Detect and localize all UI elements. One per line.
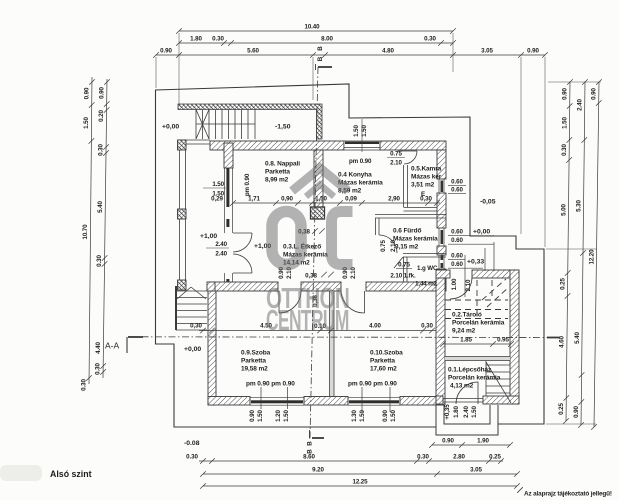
svg-text:+1,00: +1,00 (200, 233, 217, 240)
right wing top wall (436, 270, 450, 278)
door szoba 0.10 (341, 291, 365, 313)
svg-text:0.60: 0.60 (451, 229, 463, 236)
svg-text:0.90: 0.90 (98, 87, 105, 99)
svg-text:Parketta: Parketta (370, 358, 395, 365)
svg-text:0,09: 0,09 (345, 196, 357, 203)
svg-text:Porcelán kerámia: Porcelán kerámia (452, 320, 505, 327)
svg-text:1.50: 1.50 (361, 125, 368, 137)
right wing middle divider (445, 357, 510, 361)
exterior stair lower-left (176, 286, 207, 330)
terrace parapet top band (178, 104, 322, 139)
svg-text:+0,00: +0,00 (162, 124, 179, 131)
main interior wall (south of dining) segments (208, 282, 278, 291)
svg-text:0.2.Tároló: 0.2.Tároló (452, 312, 482, 319)
svg-text:0.30: 0.30 (96, 255, 103, 267)
wall stub nappali/konyha (314, 150, 323, 207)
bottom dimension row 12.25 (200, 483, 520, 489)
svg-text:+0,00: +0,00 (473, 229, 490, 236)
svg-text:-0,05: -0,05 (480, 199, 496, 206)
right dimension column A (563, 79, 573, 424)
svg-text:1,50: 1,50 (315, 196, 327, 203)
right wall window dims 0.60 with leaders (448, 185, 466, 187)
svg-text:5.40: 5.40 (97, 201, 104, 213)
svg-text:pm 0.90 pm 0.90: pm 0.90 pm 0.90 (246, 381, 295, 388)
svg-text:2.40: 2.40 (577, 99, 584, 111)
svg-text:Alsó szint: Alsó szint (50, 469, 92, 479)
svg-text:0.20: 0.20 (98, 110, 105, 122)
svg-text:9.20: 9.20 (312, 467, 324, 474)
right wing entry door arc (450, 277, 472, 299)
section line A-A horizontal (127, 337, 560, 353)
furdo door arc (379, 235, 397, 253)
svg-text:A-A: A-A (105, 341, 120, 351)
main top wall (right part) (380, 141, 446, 150)
svg-text:pm 0.90 pm 0.90: pm 0.90 pm 0.90 (348, 381, 397, 388)
svg-text:1.50: 1.50 (212, 181, 224, 188)
svg-text:8.00: 8.00 (321, 36, 333, 43)
svg-text:0.60: 0.60 (451, 261, 463, 268)
svg-text:0.90: 0.90 (591, 88, 598, 100)
svg-text:3,15 m2: 3,15 m2 (395, 244, 419, 251)
svg-text:1.80: 1.80 (190, 36, 202, 43)
top extension lines (156, 33, 545, 247)
svg-text:0.90: 0.90 (160, 48, 172, 55)
right extension lines (546, 82, 601, 424)
svg-text:+0,33: +0,33 (467, 259, 484, 266)
svg-text:1,44 m2: 1,44 m2 (415, 281, 438, 288)
svg-text:1.50: 1.50 (283, 410, 290, 422)
wc top wall (403, 254, 446, 258)
svg-text:B: B (307, 441, 314, 446)
svg-text:1.50: 1.50 (471, 406, 478, 418)
svg-text:2.10: 2.10 (390, 240, 397, 252)
svg-text:0.9.Szoba: 0.9.Szoba (241, 350, 271, 357)
svg-text:B: B (317, 46, 324, 51)
extension line from 0.60 leaders (493, 242, 495, 271)
svg-text:0.60: 0.60 (451, 237, 463, 244)
svg-text:0.60: 0.60 (451, 253, 463, 260)
svg-text:10.40: 10.40 (305, 24, 321, 31)
svg-text:1.20: 1.20 (275, 410, 282, 422)
svg-text:12.25: 12.25 (353, 479, 369, 486)
svg-text:0.60: 0.60 (451, 187, 463, 194)
window szoba 0.10 (348, 387, 400, 412)
svg-text:12.20: 12.20 (588, 249, 595, 265)
svg-text:0,30: 0,30 (190, 323, 202, 330)
svg-text:Mázas ker: Mázas ker (411, 174, 442, 181)
svg-text:0.6 Fürdő: 0.6 Fürdő (393, 228, 421, 235)
left dimension column inner (100, 79, 109, 378)
svg-text:2.40: 2.40 (215, 251, 227, 258)
svg-text:0.75: 0.75 (390, 151, 402, 158)
svg-text:2.80: 2.80 (453, 454, 465, 461)
svg-text:0.90: 0.90 (442, 438, 454, 445)
bottom dimension row 0.90/1.90 (429, 442, 513, 448)
svg-text:10.70: 10.70 (82, 224, 89, 240)
svg-text:1.30: 1.30 (351, 410, 358, 422)
wc left wall (404, 257, 408, 282)
svg-text:1.50: 1.50 (83, 117, 90, 129)
window in top wall (kitchen) (344, 141, 380, 150)
svg-text:Parketta: Parketta (241, 358, 266, 365)
outer site/terrace boundary upper (156, 84, 545, 424)
kamra bottom wall (404, 208, 438, 212)
svg-text:2.40: 2.40 (463, 406, 470, 418)
window szoba 0.9 (250, 387, 304, 409)
svg-text:0.90: 0.90 (249, 410, 256, 422)
svg-text:0.5.Kamra: 0.5.Kamra (411, 166, 442, 173)
konyha/furdo divider wall (375, 215, 446, 219)
svg-text:4.80: 4.80 (382, 48, 394, 55)
svg-text:0.60: 0.60 (451, 179, 463, 186)
right dimension column C (591, 79, 602, 430)
right wing right wall (510, 270, 519, 404)
faint scanner smudge bottom-left (0, 465, 42, 481)
wing door leaf / extension line (464, 255, 466, 297)
svg-text:0.90: 0.90 (573, 406, 580, 418)
top dimension row 0.90/5.60/4.80/3.05/0.90 (153, 52, 548, 58)
exterior landing bottom right (436, 405, 498, 435)
svg-text:B: B (307, 449, 314, 454)
svg-text:0.8. Nappali: 0.8. Nappali (265, 161, 300, 168)
svg-text:0.30: 0.30 (95, 363, 102, 375)
svg-text:0.30: 0.30 (424, 36, 436, 43)
svg-text:3.05: 3.05 (470, 467, 482, 474)
column at end of stub (311, 207, 325, 219)
svg-text:Az alaprajz tájékoztató jelleg: Az alaprajz tájékoztató jellegű! (524, 491, 612, 498)
svg-text:5.30: 5.30 (575, 200, 582, 212)
svg-text:0.30: 0.30 (98, 144, 105, 156)
kamra left wall (404, 165, 408, 207)
svg-text:0.30: 0.30 (561, 144, 568, 156)
garage right wall window (dark bar) (225, 168, 233, 207)
double door garage->dining (233, 233, 252, 273)
extension line at +0,33 (484, 248, 486, 271)
svg-text:pm 0.90: pm 0.90 (349, 158, 372, 165)
wall between stair and szoba 0.9 (207, 282, 215, 291)
svg-text:1.50: 1.50 (353, 125, 360, 137)
svg-text:2.40: 2.40 (215, 241, 227, 248)
garage right wall mid segment (225, 207, 233, 233)
door szoba 0.9 (279, 291, 301, 313)
svg-text:0.30: 0.30 (186, 454, 198, 461)
wc door leaf (394, 257, 403, 268)
right outer wall: segments with windows (437, 150, 446, 179)
svg-text:0.75: 0.75 (398, 262, 410, 269)
right wing door bottom arc (456, 382, 478, 404)
left dimension column outer (86, 77, 95, 384)
svg-text:1.50: 1.50 (561, 117, 568, 129)
interior dimension line etkezo/szoba (199, 328, 436, 334)
svg-text:0.25: 0.25 (559, 278, 566, 290)
watermark Otthon Centrum logo (266, 168, 353, 337)
kamra door arc (398, 151, 417, 164)
svg-text:0.90: 0.90 (527, 48, 539, 55)
svg-text:5.40: 5.40 (574, 332, 581, 344)
konyha window vertical dim line (361, 119, 363, 152)
svg-text:0,38: 0,38 (305, 273, 317, 280)
bottom dimension row 9.20/3.05 (200, 471, 520, 477)
svg-text:pm 0.90: pm 0.90 (244, 173, 251, 196)
lower-left outer wall (208, 291, 216, 405)
svg-text:1.90: 1.90 (477, 438, 489, 445)
svg-text:4.00: 4.00 (369, 323, 381, 330)
svg-text:1.50: 1.50 (212, 191, 224, 198)
svg-text:2,90: 2,90 (388, 196, 400, 203)
svg-text:CENTRUM: CENTRUM (266, 305, 349, 338)
svg-text:0.30: 0.30 (421, 323, 433, 330)
svg-text:1.80: 1.80 (453, 406, 460, 418)
svg-text:E: E (421, 191, 425, 198)
stair in 0.1 lepcsohaz (486, 361, 511, 403)
svg-text:0.30: 0.30 (81, 379, 88, 391)
svg-text:Porcelán kerámia: Porcelán kerámia (448, 375, 501, 382)
top dimension row 10.40 (176, 28, 456, 34)
svg-text:+0,00: +0,00 (184, 346, 201, 353)
svg-text:0.1.Lépcsőház: 0.1.Lépcsőház (448, 367, 492, 374)
svg-text:17,60 m2: 17,60 m2 (370, 366, 397, 373)
svg-text:-0.08: -0.08 (184, 440, 200, 447)
middle wall between szoba rooms (330, 291, 335, 397)
garage right wall upper segment (224, 143, 233, 168)
svg-text:0.25: 0.25 (558, 403, 565, 415)
interior dimension line nappali/konyha (230, 200, 440, 206)
svg-text:+0,35: +0,35 (444, 404, 451, 420)
garage right wall lower segment (225, 273, 233, 290)
svg-text:0.90: 0.90 (382, 410, 389, 422)
outer site boundary lower-left (156, 203, 437, 427)
garage top thin wall (178, 140, 210, 144)
top dimension row 1.80/0.30/8.00/0.30 (176, 40, 456, 46)
svg-text:5.00: 5.00 (560, 204, 567, 216)
interior dimension line 1.85/0.95 (440, 341, 514, 347)
svg-text:0.10.Szoba: 0.10.Szoba (370, 350, 403, 357)
svg-text:0.30: 0.30 (212, 36, 224, 43)
svg-text:4,13 m2: 4,13 m2 (450, 383, 474, 390)
svg-text:1.00: 1.00 (451, 278, 458, 290)
svg-text:3,51 m2: 3,51 m2 (411, 182, 435, 189)
bottom dimension row 0.30/8.60/0.30/2.80/0.25 (199, 458, 504, 464)
svg-text:0,90: 0,90 (281, 196, 293, 203)
svg-text:0.4 Konyha: 0.4 Konyha (338, 172, 372, 179)
garage left wall (thin with pillars) (178, 140, 187, 290)
section line B-B vertical (310, 64, 333, 439)
svg-text:2.10 1.fk.: 2.10 1.fk. (390, 273, 416, 280)
svg-text:Parketta: Parketta (265, 169, 290, 176)
right wing bottom wall (436, 396, 443, 404)
svg-text:8,99 m2: 8,99 m2 (265, 177, 289, 184)
stair in 0.2 (dashed, above cut) (445, 279, 509, 319)
svg-text:0.25: 0.25 (489, 454, 501, 461)
stair top (exterior, to -1.50) (196, 110, 255, 140)
svg-text:1.g WC: 1.g WC (417, 265, 438, 272)
svg-text:4.40: 4.40 (95, 342, 102, 354)
svg-text:5.60: 5.60 (247, 48, 259, 55)
svg-text:1.50: 1.50 (257, 410, 264, 422)
svg-text:2.10: 2.10 (390, 160, 402, 167)
svg-text:Mázas kerámia: Mázas kerámia (393, 236, 438, 243)
right wing glazed door in bottom wall (443, 399, 483, 403)
svg-text:2.10: 2.10 (465, 279, 472, 291)
svg-text:3.05: 3.05 (481, 48, 493, 55)
svg-text:1.50: 1.50 (359, 410, 366, 422)
szoba right / wing left wall (436, 270, 445, 405)
svg-text:9,24 m2: 9,24 m2 (452, 328, 476, 335)
svg-text:-1,50: -1,50 (275, 124, 291, 131)
bottom wall segments (208, 397, 250, 406)
right dimension column B (578, 79, 588, 428)
svg-text:0.75: 0.75 (380, 240, 387, 252)
main top wall (left part) (210, 141, 344, 150)
svg-text:0.90: 0.90 (83, 87, 90, 99)
svg-text:0.90: 0.90 (562, 88, 569, 100)
svg-text:1.50: 1.50 (390, 410, 397, 422)
furdo left wall (376, 218, 380, 235)
svg-text:19,58 m2: 19,58 m2 (241, 366, 268, 373)
svg-text:0.30: 0.30 (417, 454, 429, 461)
